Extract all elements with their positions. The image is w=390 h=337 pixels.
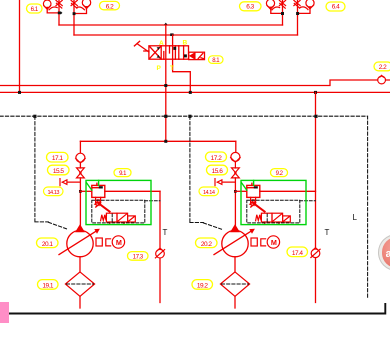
filter 19.2 element xyxy=(222,283,249,285)
svg-text:L: L xyxy=(353,213,358,222)
node: T drop on tank bus xyxy=(189,91,192,94)
shutoff valve 15.5 xyxy=(77,168,85,227)
label 6.4 xyxy=(326,2,345,11)
label 9.2 xyxy=(271,169,288,178)
servo 2 piston mark xyxy=(254,186,258,188)
svg-text:20.1: 20.1 xyxy=(42,241,54,248)
node: B branch xyxy=(170,33,173,36)
node: 6.3 junction xyxy=(281,12,284,15)
svg-text:20.2: 20.2 xyxy=(201,241,213,248)
wire: T line 1 xyxy=(159,191,161,302)
node: drain tee xyxy=(79,190,82,193)
drain port 14.13 xyxy=(60,179,80,186)
label 20.1 xyxy=(37,238,59,248)
regulator box 9.1 dashed xyxy=(92,200,160,223)
valve 6.1 xyxy=(43,0,62,10)
wire: left supply riser xyxy=(19,0,21,92)
label 19.2 xyxy=(192,280,213,290)
svg-text:T: T xyxy=(170,65,174,72)
label 6.1 xyxy=(27,4,43,13)
pilot valve 9.2 xyxy=(256,213,291,224)
node: 6.1 junction xyxy=(58,12,63,15)
label 20.2 xyxy=(196,238,218,248)
check valve 17.1 xyxy=(76,141,86,168)
svg-text:T: T xyxy=(325,228,330,237)
wire: supply header of pump groups xyxy=(80,140,235,142)
node: drain tee 2 xyxy=(234,190,237,193)
valve 6.4 xyxy=(294,0,314,10)
svg-text:8.1: 8.1 xyxy=(212,58,220,64)
svg-text:17.4: 17.4 xyxy=(292,250,304,257)
svg-text:17.1: 17.1 xyxy=(52,155,64,162)
svg-text:P: P xyxy=(157,65,162,72)
shaft coupling 2 xyxy=(251,238,266,246)
label 19.1 xyxy=(38,280,59,290)
wire: upper bus line A xyxy=(59,24,283,26)
node: riser to tank bus xyxy=(18,91,21,94)
electric motor M1 xyxy=(112,236,124,248)
svg-text:17.3: 17.3 xyxy=(133,254,144,261)
directional valve 8.1 xyxy=(134,41,204,59)
label 17.1 xyxy=(47,152,69,162)
wire: tank return bus xyxy=(0,91,390,93)
servo 1 piston mark xyxy=(99,186,103,188)
svg-text:A: A xyxy=(159,40,164,47)
filter 19.2 xyxy=(220,272,249,296)
quick coupling 2.2 xyxy=(378,75,386,84)
svg-text:B: B xyxy=(183,40,188,47)
svg-text:19.1: 19.1 xyxy=(42,282,54,289)
svg-text:M: M xyxy=(271,238,277,247)
node: 6.2 junction xyxy=(73,12,76,15)
svg-text:6.1: 6.1 xyxy=(31,6,39,13)
filter 19.1 xyxy=(65,272,94,296)
label 17.2 xyxy=(206,152,227,162)
feedback arrow 2 xyxy=(250,202,265,212)
valve 8.1 black port marks xyxy=(157,47,187,58)
wire: servo 2 to riser xyxy=(260,190,316,192)
servo actuator 2 xyxy=(247,183,260,197)
svg-text:17.2: 17.2 xyxy=(211,155,223,162)
node: right group feed xyxy=(314,91,317,94)
variable pump 20.2 xyxy=(214,225,255,256)
regulator box 9.2 dashed xyxy=(247,200,315,223)
label 2.2 xyxy=(374,62,390,71)
svg-text:2.2: 2.2 xyxy=(379,64,387,71)
wire: right group riser xyxy=(315,92,317,302)
svg-text:T: T xyxy=(163,228,168,237)
svg-text:14.14: 14.14 xyxy=(203,190,215,196)
servo actuator 1 xyxy=(92,183,105,197)
overlay: pink marker xyxy=(0,302,9,323)
node: P riser to header xyxy=(164,140,167,143)
label 17.4 xyxy=(287,247,308,257)
green highlight box 9.1 xyxy=(86,180,151,224)
shutoff valve 15.6 xyxy=(232,168,240,227)
wire: pump 1 to filter xyxy=(79,257,81,272)
wire: valve T drop xyxy=(173,35,191,92)
svg-text:15.6: 15.6 xyxy=(212,168,224,175)
label 6.3 xyxy=(240,2,262,11)
node: P riser on pump line xyxy=(164,84,167,87)
wire: pump 2 to filter xyxy=(234,257,236,272)
label 15.6 xyxy=(207,165,228,175)
wire: filter 2 suction xyxy=(234,296,236,308)
drain port 14.14 xyxy=(215,179,235,186)
servo 2 drain stub xyxy=(251,197,256,202)
overlay: floating button xyxy=(378,234,390,271)
servo 1 drain stub xyxy=(96,197,101,202)
boundary junction marks xyxy=(33,115,317,118)
wire: servo feed 1 xyxy=(80,190,92,192)
filter 19.1 element xyxy=(67,283,94,285)
svg-text:19.2: 19.2 xyxy=(197,282,209,289)
orifice 17.4 xyxy=(311,248,320,258)
node: 6.4 junction xyxy=(296,12,299,15)
variable pump 20.1 xyxy=(59,225,100,256)
svg-text:15.5: 15.5 xyxy=(53,168,65,175)
wire: 6.1 drop xyxy=(47,0,59,25)
valve 6.3 xyxy=(266,0,285,10)
wire: 6.3 drop xyxy=(271,0,283,25)
wire: 6.2 drop xyxy=(74,0,87,35)
svg-text:9.1: 9.1 xyxy=(119,171,127,177)
wire: servo feed 2 xyxy=(235,190,247,192)
label 15.5 xyxy=(48,165,70,175)
wire: filter 1 suction xyxy=(79,296,81,308)
label 14.14 xyxy=(199,187,219,196)
svg-text:14.13: 14.13 xyxy=(47,190,59,196)
node: A branch xyxy=(164,23,167,25)
svg-text:6.4: 6.4 xyxy=(332,4,340,11)
wire: 6.4 drop xyxy=(298,0,311,35)
label 6.2 xyxy=(100,1,120,10)
pilot valve 9.1 xyxy=(101,213,136,224)
wire: valve P riser xyxy=(165,25,167,141)
orifice 17.3 xyxy=(155,248,164,258)
svg-text:9.2: 9.2 xyxy=(276,171,284,177)
electric motor M2 xyxy=(267,236,279,248)
label 14.13 xyxy=(44,187,64,196)
green highlight box 9.2 xyxy=(241,180,306,224)
svg-text:6.2: 6.2 xyxy=(106,3,114,10)
wire: servo 1 to T line xyxy=(105,190,160,192)
check valve 17.2 xyxy=(231,141,241,168)
valve 6.2 xyxy=(71,0,91,10)
label 9.1 xyxy=(114,169,131,178)
frame: title block edge xyxy=(0,304,385,314)
svg-text:6.3: 6.3 xyxy=(246,4,254,11)
label 17.3 xyxy=(128,252,149,261)
wire: pump line to coupling 2.2 xyxy=(0,80,390,86)
feedback arrow 1 xyxy=(95,202,110,212)
label 8.1 xyxy=(209,56,224,64)
boundary: power unit enclosure xyxy=(0,116,368,299)
shaft coupling 1 xyxy=(96,238,111,246)
svg-text:M: M xyxy=(116,238,122,247)
wire: upper bus line B xyxy=(74,34,298,36)
